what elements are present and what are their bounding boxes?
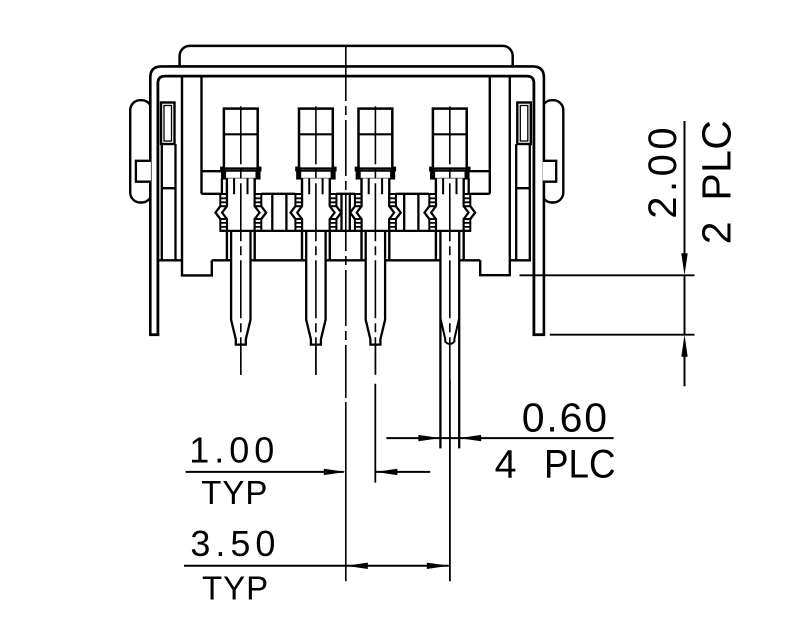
svg-text:2.00: 2.00	[641, 123, 685, 219]
back plate (rear flange)	[180, 46, 513, 80]
extension line leg bottom (right)	[550, 334, 695, 336]
pin 2 body	[302, 178, 330, 260]
pin 2 press-fit ears	[295, 194, 336, 231]
svg-text:1.00: 1.00	[189, 430, 279, 471]
cavity floor line	[202, 193, 490, 195]
right leg bottom	[533, 333, 546, 336]
pin 4 press-fit ears	[429, 194, 470, 231]
pin 3 contact box	[359, 109, 393, 169]
pin 2 solder tail	[306, 231, 325, 375]
pin 1 solder tail	[231, 231, 250, 375]
left end boss	[202, 171, 222, 194]
pin 4 / centerline extension	[449, 380, 451, 581]
pin 2 corner tabs	[295, 167, 336, 172]
left standoff pocket	[182, 260, 212, 275]
pin 3 center line	[374, 106, 376, 375]
right standoff pocket	[480, 260, 510, 275]
pin 3 solder tail	[366, 231, 385, 375]
pin 2 contact box	[299, 109, 333, 169]
left side pocket rect	[162, 144, 176, 260]
right latch window	[517, 103, 531, 145]
pin 1 contact box	[224, 109, 258, 169]
dimension 2.00 line and arrows	[681, 121, 687, 386]
pin 1 body	[227, 178, 255, 260]
pin 4 body	[436, 178, 464, 260]
pin 2 press-fit wings	[291, 206, 342, 219]
pin 4 center line	[449, 106, 451, 380]
housing bottom face	[159, 259, 531, 261]
pin 3 press-fit ears	[355, 194, 396, 231]
left leg bottom	[149, 333, 159, 336]
pin 2 center line	[315, 106, 317, 375]
pin 1 press-fit ears	[220, 194, 261, 231]
pin 4 corner tabs	[429, 167, 470, 172]
right end boss	[469, 171, 490, 194]
svg-text:4PLC: 4PLC	[495, 443, 616, 487]
pin 1 center line	[240, 106, 242, 375]
left inner wall lines	[182, 77, 202, 261]
right tab notch	[543, 161, 556, 182]
pin 1 collar	[222, 170, 261, 179]
dimension 3.50 line and arrows	[184, 563, 449, 569]
metal shell outer outline	[150, 66, 544, 334]
dimension 1.00 leaders and arrows	[186, 469, 431, 475]
pin 4 collar	[431, 170, 470, 179]
pin 2 collar	[297, 170, 336, 179]
svg-text:3.50: 3.50	[190, 523, 280, 564]
dimension 0.60 leaders and arrows	[386, 435, 613, 441]
left latch window	[161, 103, 175, 145]
main centerline	[345, 45, 347, 398]
pin 4 press-fit wings	[425, 206, 476, 219]
pin 4 contact box	[433, 109, 467, 169]
base hatch bottom line	[220, 230, 470, 232]
svg-text:0.60: 0.60	[522, 394, 609, 440]
pin 3 extension line	[374, 384, 376, 483]
pin 3 press-fit wings	[350, 206, 401, 219]
pin 1 press-fit wings	[216, 206, 267, 219]
metal shell inner outline	[158, 76, 534, 335]
left tab notch	[136, 161, 151, 182]
right inner wall lines	[490, 77, 510, 260]
pin 1 corner tabs	[220, 167, 261, 172]
base hatch band lines	[272, 195, 418, 230]
svg-text:TYP: TYP	[202, 569, 269, 606]
right side pocket rect	[516, 144, 530, 260]
pin 3 corner tabs	[355, 167, 396, 172]
pin 4 solder tail	[440, 231, 459, 449]
extension line housing bottom (right)	[520, 274, 695, 276]
pin 3 body	[362, 178, 390, 260]
svg-text:TYP: TYP	[201, 474, 268, 511]
pin 3 collar	[356, 170, 395, 179]
svg-text:2 PLC: 2 PLC	[694, 120, 740, 245]
right mounting tab	[542, 100, 564, 202]
left mounting tab	[130, 100, 152, 202]
